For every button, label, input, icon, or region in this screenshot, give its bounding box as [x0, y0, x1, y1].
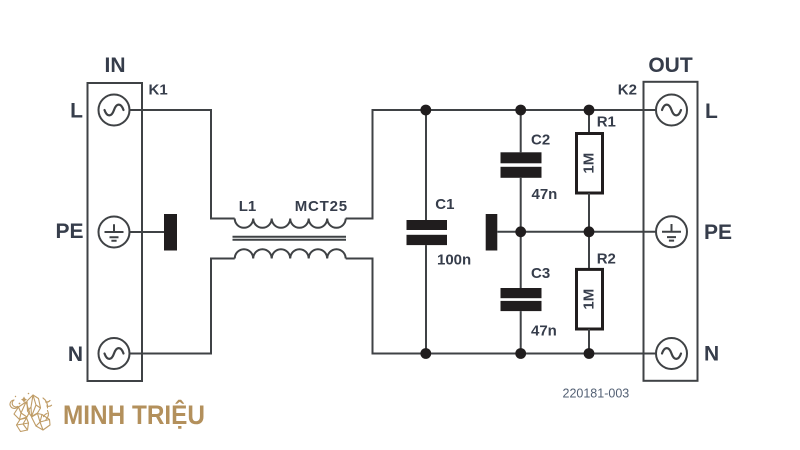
capacitor C3 bottom lead — [520, 311, 522, 353]
terminal N of K2 — [656, 338, 687, 369]
chassis bar (middle, on PE rail) — [486, 214, 498, 251]
svg-text:PE: PE — [704, 221, 732, 244]
wire L(K1) to L1 upper winding — [130, 110, 235, 219]
capacitor C1 plates — [407, 220, 448, 230]
terminal L of K1 — [99, 95, 130, 126]
capacitor C2 top lead — [520, 110, 522, 152]
svg-text:R2: R2 — [597, 250, 616, 267]
resistor R2 top lead — [588, 232, 590, 270]
svg-text:N: N — [704, 343, 719, 366]
terminal PE of K2 (earth symbol) — [656, 216, 687, 247]
svg-text:N: N — [68, 343, 83, 366]
inductor L1 core lines — [233, 237, 347, 240]
svg-text:C3: C3 — [531, 265, 550, 282]
svg-text:L1: L1 — [239, 198, 257, 215]
svg-text:PE: PE — [55, 220, 83, 243]
terminal L of K2 — [656, 95, 687, 126]
inductor L1 upper winding — [235, 219, 346, 228]
svg-text:C1: C1 — [435, 196, 454, 213]
svg-text:K2: K2 — [618, 82, 637, 99]
resistor R2 body — [577, 269, 603, 329]
capacitor C1 bottom lead — [425, 245, 427, 353]
resistor R1 bottom lead — [588, 193, 590, 232]
svg-text:100n: 100n — [437, 251, 471, 268]
capacitor C1 top lead — [425, 110, 427, 220]
junction node L/C1 — [420, 105, 431, 116]
svg-text:47n: 47n — [531, 323, 557, 340]
junction node N/C1 — [420, 348, 431, 359]
svg-text:K1: K1 — [149, 82, 168, 99]
resistor R2 bottom lead — [588, 329, 590, 354]
resistor R1 body — [577, 134, 603, 194]
svg-text:L: L — [70, 100, 83, 123]
resistor R1 top lead — [588, 110, 590, 134]
junction node N/R2 — [584, 348, 595, 359]
svg-text:L: L — [705, 100, 718, 123]
terminal PE of K1 (earth symbol) — [99, 217, 130, 248]
watermark crystal logo — [10, 393, 52, 432]
svg-text:1M: 1M — [581, 289, 598, 310]
capacitor C2 plates — [501, 152, 542, 163]
junction node PE/R1/R2 — [584, 226, 595, 237]
svg-text:IN: IN — [105, 54, 126, 77]
svg-text:MINH TRIỆU: MINH TRIỆU — [63, 399, 205, 430]
wire N(K1) to L1 lower winding — [130, 259, 235, 354]
wire lower winding to bottom node line (N rail) — [346, 259, 656, 354]
svg-text:OUT: OUT — [648, 54, 693, 77]
connector K2 box — [644, 82, 698, 381]
svg-text:220181-003: 220181-003 — [563, 387, 630, 401]
wire PE(K1) to chassis bar — [130, 231, 165, 233]
svg-text:1M: 1M — [581, 153, 598, 174]
junction node N/C3 — [515, 348, 526, 359]
capacitor C2 bottom lead — [520, 178, 522, 232]
inductor L1 lower winding — [235, 249, 346, 258]
capacitor C3 top lead — [520, 232, 522, 288]
svg-text:C2: C2 — [531, 131, 550, 148]
svg-text:R1: R1 — [597, 113, 616, 130]
wire upper winding to top node line (L rail) — [346, 110, 656, 219]
capacitor C3 plates — [501, 288, 542, 298]
wire PE rail: chassis bar to PE(K2) — [497, 231, 656, 233]
chassis bar (left, on PE) — [164, 214, 177, 251]
svg-text:47n: 47n — [532, 186, 558, 203]
junction node L/R1 — [584, 105, 595, 116]
junction node L/C2 — [515, 105, 526, 116]
connector K1 box — [88, 83, 143, 381]
junction node PE/C2/C3 — [515, 226, 526, 237]
svg-text:MCT25: MCT25 — [295, 198, 348, 215]
terminal N of K1 — [99, 338, 130, 369]
